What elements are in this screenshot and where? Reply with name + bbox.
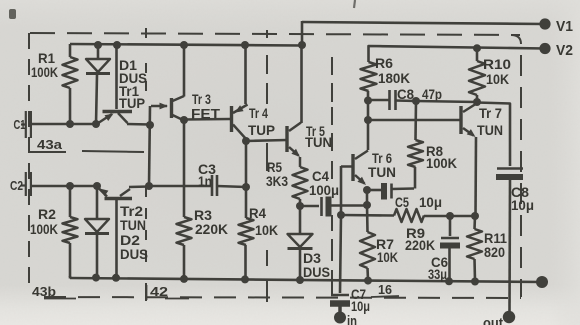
- svg-text:10μ: 10μ: [419, 194, 442, 210]
- svg-text:43a: 43a: [37, 137, 63, 152]
- terminal rail end: [536, 276, 548, 288]
- resistor R7: [360, 232, 375, 268]
- node rail-D3: [296, 276, 304, 284]
- wire left supply rail: [70, 44, 302, 46]
- wire Tr7 emitter down: [474, 137, 477, 216]
- node rail-Tr3: [180, 41, 188, 49]
- svg-text:220K: 220K: [195, 221, 228, 237]
- capacitor C4: [300, 205, 319, 208]
- svg-text:100K: 100K: [426, 155, 457, 171]
- module box bottom border: [44, 297, 521, 298]
- svg-text:V1: V1: [556, 18, 573, 35]
- wire R8 top lead: [414, 101, 417, 140]
- svg-text:TUP: TUP: [248, 122, 275, 138]
- scan speck top left: [9, 9, 16, 19]
- transistor Tr1: [115, 45, 118, 109]
- node R6-C8: [364, 97, 372, 105]
- node R10-V2: [473, 44, 481, 52]
- svg-text:C5: C5: [395, 194, 409, 210]
- svg-text:10K: 10K: [255, 222, 278, 238]
- wire V1 rail: [302, 22, 545, 24]
- svg-text:TUN: TUN: [477, 122, 503, 138]
- svg-text:C2: C2: [10, 178, 23, 193]
- separator 43a/43b: [30, 151, 66, 153]
- svg-text:R4: R4: [249, 205, 266, 221]
- node rail-Tr1: [113, 41, 121, 49]
- svg-text:in: in: [347, 313, 357, 325]
- transistor Tr7: [459, 106, 462, 134]
- wire R4 top lead: [245, 141, 248, 218]
- svg-text:Tr 7: Tr 7: [479, 105, 502, 121]
- node rail-D1: [94, 41, 102, 49]
- svg-text:220K: 220K: [405, 237, 435, 253]
- diode D3: [299, 206, 302, 234]
- capacitor C8 out: [497, 167, 523, 170]
- svg-text:180K: 180K: [378, 70, 410, 86]
- svg-text:R10: R10: [483, 56, 511, 72]
- node in1-R1: [66, 120, 74, 128]
- resistor R5: [293, 167, 308, 199]
- capacitor C1: [25, 111, 27, 138]
- node Tr4 collector: [242, 137, 250, 145]
- wire V2 rail: [369, 46, 546, 60]
- svg-text:3K3: 3K3: [266, 173, 288, 189]
- svg-text:100K: 100K: [30, 221, 58, 237]
- svg-text:TUN: TUN: [120, 217, 146, 233]
- node feedback: [471, 212, 479, 220]
- svg-text:42: 42: [150, 284, 168, 299]
- svg-text:C1: C1: [14, 117, 26, 132]
- wire Tr6 base down: [340, 166, 343, 215]
- svg-text:43b: 43b: [32, 284, 56, 299]
- separator 42/16: [266, 30, 268, 38]
- svg-text:out: out: [483, 315, 503, 325]
- resistor R11: [473, 216, 476, 229]
- node rail-D2: [92, 274, 100, 282]
- node Tr6 emitter: [363, 186, 371, 194]
- node gate-Tr1: [146, 121, 154, 129]
- svg-text:100μ: 100μ: [309, 182, 339, 198]
- svg-text:47p: 47p: [422, 86, 442, 102]
- node in2-D2: [93, 182, 101, 190]
- svg-text:Tr 4: Tr 4: [249, 105, 268, 121]
- capacitor C3: [211, 175, 214, 196]
- wire bottom rail: [70, 278, 542, 282]
- wire Tr4 base: [184, 118, 230, 121]
- module box left border: [28, 33, 30, 291]
- separator 43/42: [145, 28, 147, 38]
- svg-text:DUS: DUS: [120, 246, 148, 262]
- node Tr7 collector: [473, 98, 481, 106]
- svg-text:820: 820: [484, 244, 505, 260]
- svg-text:TUN: TUN: [368, 164, 396, 180]
- svg-text:10μ: 10μ: [511, 197, 534, 213]
- diode D2: [96, 186, 99, 219]
- node Tr6 collector: [364, 116, 372, 124]
- wire R7 top lead: [366, 205, 369, 232]
- terminal V2: [539, 43, 550, 54]
- wire in line: [340, 215, 341, 293]
- node C6 top: [446, 212, 454, 220]
- capacitor C7: [331, 294, 349, 297]
- capacitor C8 47p: [388, 90, 391, 110]
- wire Tr5 collector riser: [300, 45, 303, 123]
- node rail-Tr2: [112, 274, 120, 282]
- node C4 right: [363, 201, 371, 209]
- transistor Tr5: [285, 126, 288, 152]
- node gate-C3: [145, 182, 153, 190]
- capacitor C6: [449, 216, 452, 236]
- node rail-Tr4: [241, 41, 249, 49]
- node R5-C4-D3: [296, 202, 304, 210]
- wire 47p to collector: [416, 101, 477, 102]
- svg-text:TUP: TUP: [119, 95, 145, 111]
- wire Tr7 base: [368, 119, 460, 122]
- resistor R4: [239, 218, 254, 245]
- resistor R10: [476, 48, 479, 61]
- svg-text:100K: 100K: [31, 64, 58, 80]
- svg-text:R2: R2: [38, 206, 56, 222]
- node rail-Tr5: [298, 41, 306, 49]
- resistor R8: [408, 140, 423, 167]
- node R8 top: [412, 97, 420, 105]
- wire Tr4 collector to Tr5: [246, 140, 287, 141]
- resistor R9: [341, 214, 394, 217]
- svg-text:DUS: DUS: [303, 264, 330, 280]
- wire input1: [31, 123, 97, 126]
- capacitor C5: [367, 189, 381, 192]
- fet Tr3: [151, 105, 167, 108]
- wire V1 riser: [301, 21, 304, 45]
- wire Tr1 collector to gate: [127, 123, 150, 126]
- wire Tr6 collector riser: [367, 100, 370, 150]
- resistor R3: [177, 217, 192, 245]
- node C3-R4: [242, 183, 250, 191]
- node rail-C6: [445, 277, 453, 285]
- wire collector to C8 out: [477, 103, 510, 167]
- transistor Tr6: [351, 154, 354, 181]
- svg-text:16: 16: [378, 282, 392, 297]
- separator 16 left edge: [331, 57, 333, 75]
- node in1-D1: [92, 120, 100, 128]
- node rail-R7: [364, 277, 372, 285]
- svg-text:TUN: TUN: [305, 134, 332, 150]
- resistor R6: [367, 60, 370, 62]
- wire input2: [31, 185, 97, 188]
- terminal out: [503, 311, 515, 323]
- terminal V1: [539, 18, 550, 29]
- module box top border: [30, 33, 520, 35]
- node rail-R4: [241, 275, 249, 283]
- node Tr6 base-R9: [337, 211, 345, 219]
- svg-text:33μ: 33μ: [428, 266, 447, 282]
- wire Tr6 emitter down: [366, 190, 369, 205]
- wire Tr3 drain riser: [183, 45, 186, 97]
- svg-text:10K: 10K: [486, 71, 509, 87]
- svg-text:C8: C8: [397, 86, 414, 102]
- resistor R1: [69, 44, 72, 57]
- scan mark top edge: [354, 0, 355, 8]
- node in2-R2: [66, 182, 74, 190]
- wire Tr3 source down: [183, 120, 186, 217]
- svg-text:10μ: 10μ: [351, 298, 370, 314]
- svg-text:1n: 1n: [198, 173, 212, 189]
- node rail-R11: [471, 278, 479, 286]
- wire Tr4 emitter riser: [244, 45, 247, 104]
- diode D1: [97, 45, 100, 59]
- svg-text:V2: V2: [556, 42, 573, 59]
- svg-text:R6: R6: [375, 55, 393, 71]
- module box right border: [511, 35, 521, 44]
- transistor Tr2: [115, 200, 118, 277]
- node rail-R3: [180, 275, 188, 283]
- node source: [180, 116, 188, 124]
- capacitor C2: [25, 172, 27, 196]
- svg-text:10K: 10K: [377, 249, 398, 265]
- resistor R2: [69, 186, 72, 217]
- transistor Tr4: [230, 106, 233, 132]
- wire gate node vertical: [149, 106, 150, 186]
- terminal in: [334, 312, 346, 324]
- wire R2 corner: [69, 276, 72, 279]
